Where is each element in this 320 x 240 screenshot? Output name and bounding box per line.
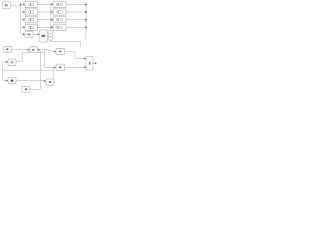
wire bus to L4 — [21, 26, 24, 28]
arrowhead into F2 — [6, 80, 8, 82]
wire left bus vertical with elbow into B5 — [21, 4, 24, 34]
box B7 — [56, 64, 65, 71]
box B6 — [56, 48, 65, 55]
wire coil output down then east then corner down — [50, 40, 80, 47]
glyph L1 — [29, 3, 34, 6]
arrowhead into B6 — [54, 50, 56, 52]
box M output — [86, 57, 93, 71]
wire bus to L3 — [21, 19, 24, 21]
glyph B9 — [25, 88, 27, 90]
glyph IA — [42, 35, 46, 37]
wire L3 to R3 — [38, 19, 52, 21]
wire bus to L1 — [21, 3, 24, 5]
box S1 source — [2, 2, 11, 9]
wire F1 output west then down then east into F2 — [3, 62, 8, 81]
glyph R1 — [56, 3, 62, 6]
box B5 — [25, 31, 33, 37]
box X2 — [30, 47, 38, 53]
box B9 — [22, 86, 30, 92]
wire junction east to B6 — [41, 50, 54, 52]
wire B6 output elbow into M upper — [65, 52, 85, 59]
coil bump 2 — [48, 34, 52, 37]
arrowhead into L3 — [23, 19, 25, 21]
coil bump 3 — [48, 37, 52, 40]
wire B7 output east into M lower — [65, 66, 85, 68]
wire M output — [93, 62, 95, 64]
wire F2 output east to B8 — [16, 80, 44, 82]
box R2 — [53, 9, 66, 15]
glyph L3 — [29, 18, 34, 21]
wire L1 to R1 — [38, 3, 52, 5]
wire west branch to F1 input elbow — [16, 52, 45, 61]
box S2 — [4, 46, 12, 52]
wire y70.6 return line east to vertical — [3, 70, 54, 72]
box F1 — [8, 59, 16, 65]
arrowhead into B8 — [44, 80, 46, 82]
arrowhead into B7 — [54, 66, 56, 68]
box L2 — [25, 9, 38, 15]
wire R4 to right bus — [66, 26, 86, 28]
wire right bus vertical — [85, 4, 87, 39]
wire L4 to R4 — [38, 26, 52, 28]
wire L2 to R2 — [38, 11, 52, 13]
glyph B8 — [49, 81, 51, 83]
junction nub S1 line at bus — [20, 4, 21, 6]
box B8 — [46, 79, 54, 85]
wire vertical from B7 junction down to B8 top — [53, 67, 55, 79]
wire R2 to right bus — [66, 11, 86, 13]
box F2 — [8, 78, 16, 84]
box L3 — [25, 17, 38, 23]
box L1 — [25, 1, 38, 7]
glyph M — [89, 62, 90, 65]
box R4 — [53, 24, 66, 30]
glyph R4 — [56, 26, 62, 29]
box IA — [40, 30, 48, 42]
wire S1 output to bus — [11, 4, 21, 6]
wire feedback vertical x40.5 down to B9 line — [30, 50, 41, 90]
arrowhead into B5 — [23, 33, 25, 35]
wire bus to L2 — [21, 11, 24, 13]
arrowhead M output — [95, 62, 97, 64]
glyph S1 — [5, 4, 8, 7]
arrowhead into L1 — [23, 3, 25, 5]
box R3 — [53, 17, 66, 23]
glyph S2 — [6, 48, 8, 50]
box R1 — [53, 1, 66, 7]
coil bump 1 — [48, 31, 52, 34]
glyph R3 — [56, 18, 62, 21]
junction nubs right bus — [85, 4, 87, 6]
arrowhead X2 output into junction — [38, 49, 40, 51]
arrowhead into R3 — [51, 19, 53, 21]
wire second bus x50.5 down to coil top — [50, 4, 52, 30]
arrowhead into IA — [38, 33, 40, 35]
glyph X2 — [32, 49, 34, 51]
arrowhead into M upper — [84, 57, 86, 59]
box L4 — [25, 24, 38, 30]
arrowhead into L4 — [23, 26, 25, 28]
glyph F1 — [11, 61, 14, 63]
glyph B6 — [59, 51, 61, 53]
arrowhead into L2 — [23, 11, 25, 13]
glyph F2 — [11, 80, 13, 82]
arrowhead into F1 — [6, 61, 8, 63]
glyph B5 — [27, 33, 30, 35]
arrowhead into X2 — [27, 49, 29, 51]
glyph R2 — [56, 11, 62, 14]
wire R3 to right bus — [66, 19, 86, 21]
wire R1 to right bus — [66, 3, 86, 5]
arrowhead into R4 — [51, 26, 53, 28]
wire B5 to IA — [33, 33, 38, 35]
glyph L4 — [29, 26, 34, 29]
glyph L2 — [29, 11, 34, 14]
arrowhead into M lower — [84, 66, 86, 68]
wire S2 to X2 — [12, 49, 28, 51]
wire vertical x44.7 down with corner into B7 — [45, 50, 54, 68]
glyph B7 — [59, 66, 61, 68]
arrowhead into R1 — [51, 3, 53, 5]
arrowhead into R2 — [51, 11, 53, 13]
